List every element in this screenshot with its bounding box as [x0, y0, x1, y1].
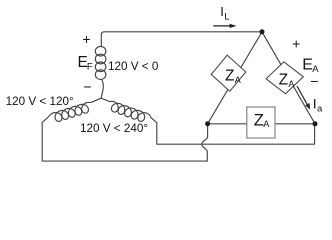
wire: wye junction stub to 240deg coil: [101, 98, 114, 101]
inductor coil 120 V &lt; 240deg, diagonal down-right, 5 loops: [111, 101, 151, 121]
svg-text:120 V < 0: 120 V < 0: [108, 60, 159, 73]
svg-text:L: L: [224, 11, 229, 22]
impedance Z_A (bottom box) on delta bottom side: [247, 107, 275, 138]
node: delta apex junction dot: [260, 29, 265, 34]
label: phase current I_a: [313, 95, 323, 114]
svg-text:−: −: [83, 78, 91, 94]
node: delta bottom-left junction dot: [205, 121, 210, 126]
wire: wye junction stub to 120deg coil: [87, 98, 101, 102]
node: delta bottom-right junction dot: [313, 121, 318, 126]
svg-text:Z: Z: [279, 71, 288, 88]
svg-text:F: F: [87, 62, 93, 73]
svg-text:a: a: [317, 104, 323, 115]
svg-text:120 V < 240°: 120 V < 240°: [80, 122, 148, 135]
svg-text:120 V < 120°: 120 V < 120°: [6, 95, 74, 108]
svg-text:+: +: [82, 31, 90, 47]
wire: delta bottom side: [208, 123, 315, 125]
wire: 240deg coil end down and right to bottom-right node: [151, 118, 315, 145]
impedance Z_A (left diamond) on delta left side: [210, 54, 247, 93]
arrow: I_L direction arrow: [213, 24, 236, 28]
wire: bottom-left node down with hop over crossing wire, along bottom, up to 120deg coil: [42, 114, 207, 161]
svg-text:A: A: [288, 79, 295, 89]
label: line current I_L: [220, 4, 229, 23]
svg-text:A: A: [263, 119, 270, 129]
label: source voltage E_F: [78, 54, 93, 73]
svg-text:Z: Z: [254, 112, 264, 130]
wire: wye junction stub up to E_F coil bottom: [101, 80, 103, 98]
svg-text:Z: Z: [225, 68, 234, 85]
wire: delta left side (apex to bottom-left node): [208, 32, 262, 124]
svg-text:I: I: [220, 4, 224, 19]
impedance Z_A (right diamond) on delta right side: [265, 61, 304, 95]
svg-text:A: A: [235, 75, 242, 85]
label: load phase voltage E_A: [302, 57, 319, 76]
wire: delta right side (apex to bottom-right node): [262, 32, 315, 124]
svg-text:+: +: [292, 35, 300, 51]
svg-text:−: −: [310, 73, 318, 89]
inductor coil 120 V &lt; 120deg, diagonal down-left, 5 loops: [51, 103, 88, 122]
arrow: I_a phase current arrow: [297, 86, 310, 110]
wire: top feed from E_F plus terminal to delta apex: [101, 32, 262, 46]
inductor coil E_F (120 V &lt; 0), vertical, 4 loops: [95, 46, 106, 79]
